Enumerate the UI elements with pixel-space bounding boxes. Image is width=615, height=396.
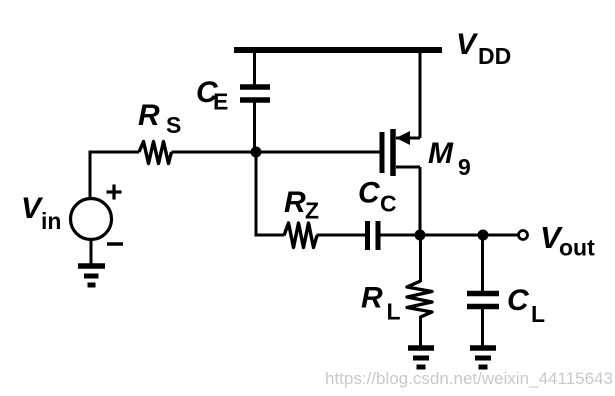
wire CL to ground: [481, 308, 484, 346]
resistor RS: [139, 142, 172, 164]
capacitor CC: [368, 221, 379, 250]
svg-text:9: 9: [458, 154, 471, 180]
net VDD label: [456, 28, 511, 69]
svg-text:R: R: [361, 282, 383, 315]
svg-text:R: R: [138, 99, 160, 132]
svg-text:S: S: [166, 112, 181, 138]
wire CC to node B: [380, 234, 420, 237]
Vin label: [21, 192, 61, 234]
svg-text:Z: Z: [305, 198, 319, 224]
wire CE top (rail to CE): [253, 50, 256, 85]
svg-text:https://blog.csdn.net/weixin_4: https://blog.csdn.net/weixin_44115643: [325, 369, 613, 388]
Vin minus sign: [107, 242, 123, 246]
svg-text:E: E: [213, 89, 228, 115]
svg-text:L: L: [531, 301, 545, 327]
capacitor CL: [467, 294, 499, 307]
wire node A down to RZ row: [256, 152, 284, 235]
RZ value label: [284, 186, 319, 224]
CE value label: [196, 76, 228, 115]
svg-text:C: C: [507, 284, 530, 317]
RS value label: [138, 99, 181, 138]
wire RS to gate (through node A): [172, 151, 381, 154]
wire node B down to RL: [419, 235, 422, 282]
node A (gate node junction dot): [251, 147, 262, 158]
resistor RZ: [284, 223, 317, 248]
CL value label: [507, 284, 545, 327]
svg-text:C: C: [380, 191, 397, 217]
Vout label: [540, 220, 595, 261]
wire node B to node C: [420, 234, 483, 237]
wire node C down to CL: [481, 235, 484, 291]
CC value label: [358, 177, 397, 217]
ground (below Vin): [78, 266, 105, 285]
svg-text:DD: DD: [478, 43, 511, 69]
capacitor CE: [240, 87, 270, 100]
node C (CL junction dot): [478, 230, 489, 241]
resistor RL: [407, 281, 432, 317]
transistor M9 (PMOS): [382, 129, 420, 176]
source Vin (voltage source circle): [71, 199, 112, 240]
svg-text:C: C: [358, 177, 381, 210]
wire CE bottom (CE to gate node): [253, 102, 256, 153]
wire M9 source to VDD rail: [419, 50, 422, 138]
ground (below CL): [470, 348, 496, 367]
svg-text:out: out: [559, 235, 595, 261]
node B (drain/output junction dot): [415, 230, 426, 241]
wire node C to Vout terminal: [483, 234, 518, 237]
wire RL to ground: [419, 316, 422, 346]
M9 label: [428, 137, 471, 180]
terminal Vout (open circle): [519, 231, 528, 240]
ground (below RL): [408, 348, 434, 367]
wire RZ to CC: [317, 234, 366, 237]
watermark text: [325, 369, 613, 388]
wire Vin to ground: [90, 240, 93, 265]
VDD rail: [234, 47, 442, 53]
wire Vin corner to RS: [90, 152, 139, 198]
svg-text:M: M: [428, 137, 454, 170]
svg-text:in: in: [41, 208, 61, 234]
svg-text:R: R: [284, 186, 306, 219]
RL value label: [361, 282, 401, 325]
Vin plus sign: [107, 185, 122, 200]
wire M9 drain down to node B: [419, 167, 422, 235]
svg-text:V: V: [456, 28, 479, 61]
svg-text:L: L: [387, 299, 401, 325]
